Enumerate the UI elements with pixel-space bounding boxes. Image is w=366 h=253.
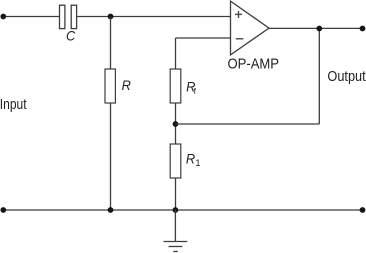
ground terminal node (bottom left) — [0, 207, 6, 213]
node: junction of Rf, R1 and feedback — [173, 121, 179, 127]
wire: feedback vertical from output node — [318, 28, 320, 124]
capacitor C — [60, 5, 77, 43]
wire: bottom ground rail — [3, 209, 362, 211]
wire: feedback horizontal to Rf/R1 junction — [176, 123, 320, 125]
svg-text:C: C — [66, 28, 75, 43]
input terminal node (top left) — [0, 14, 6, 20]
wire: R1 down to ground rail — [175, 178, 177, 210]
wire: down to resistor Rf — [175, 38, 177, 69]
wire: capacitor to op-amp + input (top rail) — [77, 16, 231, 18]
wire: op-amp output to right terminal — [269, 27, 363, 29]
wire: junction down to resistor R — [110, 17, 112, 70]
resistor Rf — [170, 69, 196, 103]
node: output junction — [316, 26, 322, 32]
node: R to ground rail — [108, 207, 114, 213]
wire: input lead to capacitor — [3, 16, 59, 18]
op-amp U1 — [228, 1, 280, 72]
wire: Rf to junction node — [175, 103, 177, 144]
svg-text:1: 1 — [195, 158, 200, 168]
wire: inverting input to feedback branch — [176, 37, 231, 39]
wire: stem to ground symbol — [174, 210, 176, 242]
svg-text:R: R — [186, 152, 195, 167]
svg-text:R: R — [122, 78, 131, 93]
wire: resistor R down to ground rail — [110, 103, 112, 210]
ground — [164, 242, 188, 252]
node: junction of C, R and + input — [108, 14, 114, 20]
node: R1 to ground rail — [173, 207, 179, 213]
svg-text:Output: Output — [327, 69, 365, 85]
output terminal node (right) — [360, 26, 366, 32]
svg-text:Input: Input — [0, 97, 27, 113]
resistor R1 — [170, 144, 200, 178]
ground terminal node (bottom right) — [360, 207, 366, 213]
svg-text:OP-AMP: OP-AMP — [228, 55, 280, 72]
resistor R — [105, 69, 131, 103]
